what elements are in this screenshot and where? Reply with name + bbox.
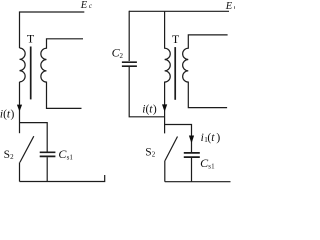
svg-text:S: S <box>145 147 151 159</box>
svg-text:): ) <box>216 132 220 144</box>
svg-text:T: T <box>172 32 180 46</box>
svg-text:E: E <box>80 0 88 11</box>
svg-text:2: 2 <box>120 52 124 60</box>
svg-text:2: 2 <box>152 150 156 158</box>
svg-text:): ) <box>11 109 15 121</box>
svg-text:E: E <box>225 1 233 12</box>
svg-text:c: c <box>89 2 93 10</box>
svg-text:2: 2 <box>10 153 14 161</box>
svg-text:c: c <box>234 3 235 11</box>
svg-text:): ) <box>153 104 157 116</box>
svg-text:1: 1 <box>211 163 215 171</box>
svg-text:S: S <box>4 149 10 161</box>
svg-text:T: T <box>27 32 35 46</box>
svg-text:t: t <box>211 132 215 144</box>
svg-text:1: 1 <box>69 153 73 161</box>
